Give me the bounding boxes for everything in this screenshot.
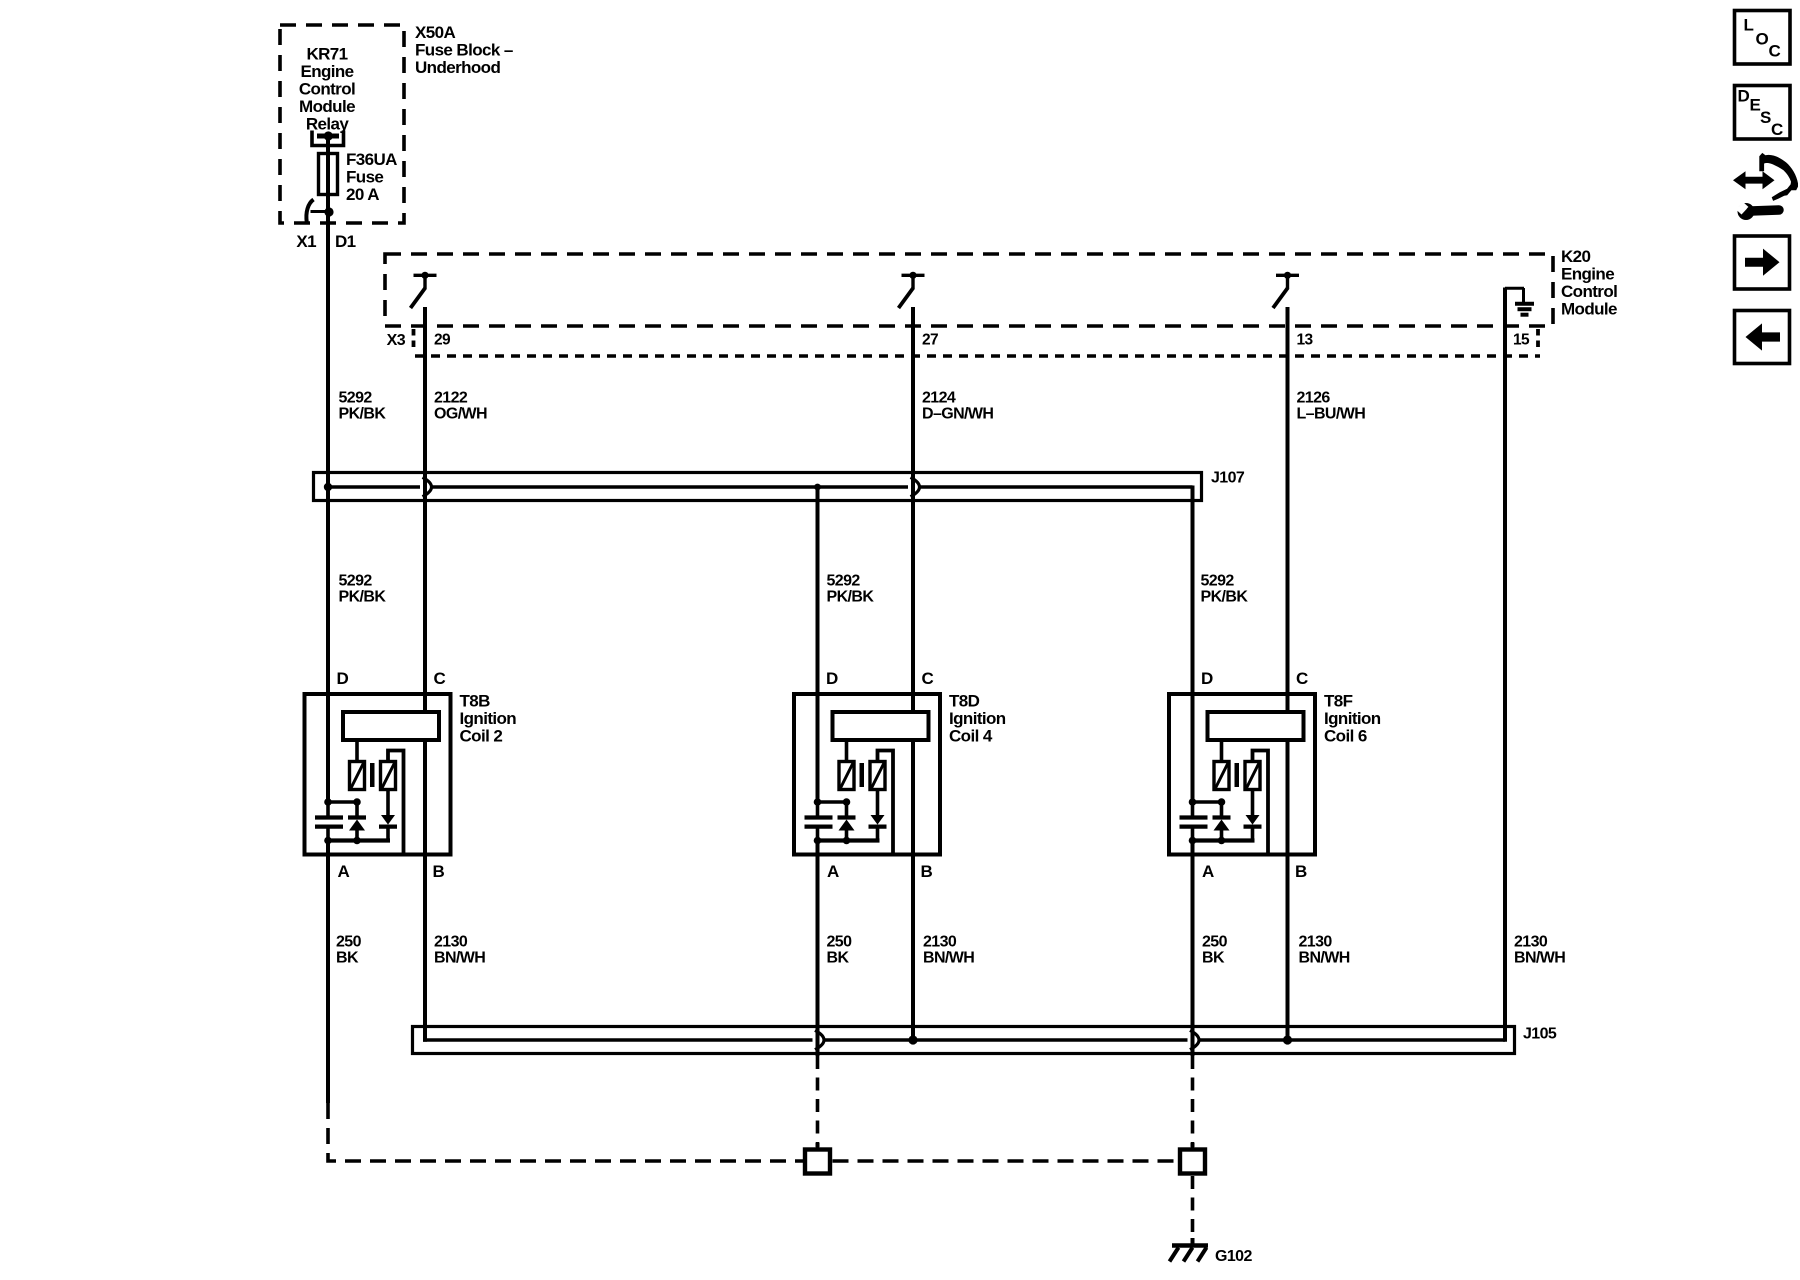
svg-text:PK/BK: PK/BK — [339, 589, 387, 606]
relay switch junction dot — [324, 207, 333, 216]
label T8D Ignition Coil 4 — [949, 692, 1006, 746]
wire 2126 L-BU/WH from ECM pin 13 to coil 6 pin C — [1286, 307, 1290, 712]
svg-text:250: 250 — [336, 934, 362, 951]
svg-text:29: 29 — [434, 332, 451, 349]
J107 branch junction to coil 4 pin D — [814, 484, 821, 491]
T8B primary winding feed wire — [355, 742, 359, 760]
relay switch blade arc — [306, 200, 313, 223]
svg-text:C: C — [1296, 669, 1308, 688]
relay KR71 fixed contact bar — [317, 134, 339, 139]
svg-text:F36UA: F36UA — [346, 150, 397, 169]
svg-text:2126: 2126 — [1297, 390, 1331, 407]
svg-text:BN/WH: BN/WH — [923, 950, 974, 967]
J105 junction dot wire 2130 (coil 4) — [908, 1035, 917, 1044]
svg-text:Engine: Engine — [1561, 265, 1614, 284]
svg-text:D: D — [1738, 87, 1750, 106]
svg-text:2130: 2130 — [1299, 934, 1333, 951]
connector X3 dashed line — [415, 354, 1540, 357]
splice pack J107 bus bar segment 1 — [326, 485, 420, 488]
forward arrow button — [1735, 236, 1790, 289]
engine control module K20 dashed box — [385, 254, 1553, 326]
T8B coil module bar — [343, 712, 439, 740]
J105 hop over wire 250 BK (coil 4) — [815, 1030, 824, 1049]
svg-text:BK: BK — [336, 950, 359, 967]
svg-text:L: L — [1744, 16, 1754, 35]
pin C label T8B — [434, 669, 446, 688]
ECM driver switch output to coil 6 — [1273, 272, 1299, 308]
wire label 250 BK (coil 4) — [827, 934, 853, 967]
wire label 2130 BN/WH (ECM) — [1514, 934, 1565, 967]
T8D diode (down) — [869, 789, 887, 841]
wire label 5292 PK/BK (upper left) — [339, 390, 387, 423]
dashed wire splice square S2 to ground G102 — [1191, 1176, 1195, 1240]
svg-text:BN/WH: BN/WH — [1299, 950, 1350, 967]
wire 2130 BN/WH coil 2 pin B to J105 — [423, 742, 427, 1042]
T8F primary winding feed wire — [1220, 742, 1224, 760]
T8F core bar — [1235, 763, 1240, 787]
T8B core bar — [370, 763, 375, 787]
relay KR71 contact junction dot — [324, 131, 333, 140]
svg-text:B: B — [921, 862, 933, 881]
svg-text:Control: Control — [299, 80, 355, 99]
svg-text:A: A — [338, 862, 350, 881]
pin D label T8F — [1201, 669, 1213, 688]
svg-text:BN/WH: BN/WH — [1514, 950, 1565, 967]
T8D internal ground rail — [815, 838, 880, 842]
svg-text:L–BU/WH: L–BU/WH — [1297, 406, 1366, 423]
wire 250 BK coil 4 dashed to splice square — [816, 1056, 820, 1148]
svg-text:PK/BK: PK/BK — [827, 589, 875, 606]
splice pack J107 bus bar segment 3 — [919, 485, 1193, 488]
wire 2122 OG/WH from ECM pin 29 to coil 2 pin C — [423, 307, 427, 712]
svg-text:2130: 2130 — [923, 934, 957, 951]
relay KR71 contact bracket — [312, 131, 344, 146]
splice pack J107 bus bar segment 2 — [431, 485, 909, 488]
svg-text:2122: 2122 — [434, 390, 468, 407]
ECM driver switch output to coil 4 — [899, 272, 925, 308]
wire 250 BK coil 6 dashed to splice square — [1191, 1056, 1195, 1148]
T8B capacitor — [315, 802, 343, 841]
T8D secondary output wire — [878, 751, 894, 855]
T8F diode (up) — [1213, 802, 1231, 841]
pin label D1 — [335, 232, 356, 251]
T8D primary winding feed wire — [845, 742, 849, 760]
svg-text:J105: J105 — [1523, 1026, 1557, 1043]
svg-text:C: C — [434, 669, 446, 688]
label F36UA Fuse 20 A — [346, 150, 397, 204]
wire 250 BK coil 2 dashed to splice square — [328, 1103, 805, 1161]
svg-text:5292: 5292 — [1201, 573, 1235, 590]
T8F primary winding — [1214, 762, 1229, 790]
wire label 2126 L-BU/WH — [1297, 390, 1366, 423]
svg-text:C: C — [922, 669, 934, 688]
icon curved arrow band — [1759, 153, 1798, 201]
T8B secondary winding — [381, 762, 396, 790]
svg-text:D1: D1 — [335, 232, 356, 251]
relay switch horizontal contact line — [311, 210, 330, 213]
T8D coil module bar — [833, 712, 929, 740]
svg-text:27: 27 — [922, 332, 938, 349]
pin 15 label — [1513, 332, 1530, 349]
svg-text:2130: 2130 — [434, 934, 468, 951]
J107 junction dot wire 5292 — [324, 483, 332, 491]
schematic navigation icon (arrows and wrench) — [1733, 153, 1798, 220]
fuse block X50A dashed box — [280, 25, 404, 223]
icon wrench — [1738, 203, 1755, 220]
connector X3 tick mark — [412, 329, 416, 352]
wire label 250 BK (coil 6) — [1202, 934, 1228, 967]
splice pack J107 outline — [314, 473, 1202, 501]
svg-text:Ignition: Ignition — [949, 709, 1006, 728]
svg-text:Coil 6: Coil 6 — [1324, 727, 1367, 746]
wire 2130 BN/WH coil 6 pin B to J105 — [1286, 742, 1290, 1040]
svg-text:T8D: T8D — [949, 692, 980, 711]
pin B label T8F — [1295, 862, 1307, 881]
pin 13 label — [1297, 332, 1314, 349]
svg-text:J107: J107 — [1211, 470, 1245, 487]
splice pack J105 bus bar segment 1 — [423, 1038, 813, 1041]
label KR71 Engine Control Module Relay — [299, 45, 355, 134]
svg-text:A: A — [827, 862, 839, 881]
T8D internal link primary to D — [818, 800, 847, 804]
pin label X1 — [296, 232, 316, 251]
wire label 2130 BN/WH (coil 4) — [923, 934, 974, 967]
wire 5292 PK/BK from relay to coil 2 pin D (through J107) — [326, 212, 330, 802]
svg-text:Coil 2: Coil 2 — [460, 727, 503, 746]
svg-text:15: 15 — [1513, 332, 1530, 349]
T8D core bar — [860, 763, 865, 787]
svg-text:E: E — [1750, 96, 1761, 115]
pin A label T8D — [827, 862, 839, 881]
pin C label T8D — [922, 669, 934, 688]
wire label 2130 BN/WH (coil 6) — [1299, 934, 1350, 967]
T8B diode (down) — [379, 789, 397, 841]
T8F internal ground rail — [1190, 838, 1255, 842]
svg-text:BK: BK — [827, 950, 850, 967]
T8B internal ground rail — [325, 838, 390, 842]
T8B internal link primary to D — [328, 800, 357, 804]
svg-text:Engine: Engine — [300, 62, 353, 81]
T8B secondary output wire — [388, 751, 404, 855]
label X3 — [387, 332, 406, 349]
svg-text:PK/BK: PK/BK — [339, 406, 387, 423]
label T8B Ignition Coil 2 — [460, 692, 517, 746]
wire label 250 BK (coil 2) — [336, 934, 362, 967]
svg-text:T8F: T8F — [1324, 692, 1353, 711]
wire 250 BK coil 6 pin A down — [1191, 841, 1195, 1057]
splice pack J105 bus bar segment 3 — [1198, 1038, 1505, 1041]
pin 27 label — [922, 332, 938, 349]
ground splice square S2 — [1180, 1150, 1205, 1174]
svg-text:Module: Module — [1561, 300, 1617, 319]
wire label 2130 BN/WH (coil 2) — [434, 934, 485, 967]
T8F secondary winding — [1245, 762, 1260, 790]
ignition coil T8B box — [305, 694, 451, 855]
pin D label T8D — [826, 669, 838, 688]
LOC button box — [1735, 11, 1791, 65]
svg-text:PK/BK: PK/BK — [1201, 589, 1249, 606]
svg-text:Control: Control — [1561, 282, 1617, 301]
wire label 5292 PK/BK (middle) — [827, 573, 875, 606]
J107 hop over wire 2124 — [911, 477, 920, 496]
svg-text:D: D — [826, 669, 838, 688]
svg-text:O: O — [1756, 30, 1769, 49]
wire 250 BK coil 4 pin A down — [816, 841, 820, 1057]
wire label 2122 OG/WH — [434, 390, 487, 423]
label T8F Ignition Coil 6 — [1324, 692, 1381, 746]
svg-text:20 A: 20 A — [346, 185, 379, 204]
wire 5292 PK/BK from J107 to coil 4 pin D — [816, 486, 820, 803]
ECM internal ground symbol — [1505, 288, 1534, 315]
T8F secondary output wire — [1253, 751, 1269, 855]
label J107 — [1211, 470, 1245, 487]
T8D secondary winding — [870, 762, 885, 790]
svg-text:S: S — [1760, 108, 1771, 127]
dashed wire splice square S1 to S2 — [833, 1159, 1178, 1163]
pin D label T8B — [337, 669, 349, 688]
svg-text:13: 13 — [1297, 332, 1314, 349]
splice pack J105 outline — [413, 1027, 1515, 1054]
wire label 5292 PK/BK (left) — [339, 573, 387, 606]
svg-text:250: 250 — [827, 934, 853, 951]
wire 2124 D-GN/WH from ECM pin 27 to coil 4 pin C — [911, 307, 915, 712]
T8F coil module bar — [1208, 712, 1304, 740]
T8F diode (down) — [1244, 789, 1262, 841]
pin C label T8F — [1296, 669, 1308, 688]
J105 hop over wire 250 BK (coil 6) — [1190, 1030, 1199, 1049]
wire 5292 PK/BK from J107 to coil 6 pin D — [1191, 486, 1195, 803]
fuse F36UA body — [319, 154, 338, 195]
label X50A Fuse Block - Underhood — [415, 23, 513, 77]
T8F capacitor — [1180, 802, 1208, 841]
wire 250 BK coil 2 pin A down — [326, 841, 330, 1104]
icon double-headed arrow — [1733, 171, 1775, 189]
svg-text:X1: X1 — [296, 232, 316, 251]
wire label 2124 D-GN/WH — [922, 390, 993, 423]
ignition coil T8D box — [794, 694, 940, 855]
back arrow button — [1735, 311, 1790, 364]
ground G102 symbol — [1170, 1238, 1209, 1262]
T8D primary winding — [839, 762, 854, 790]
svg-text:Ignition: Ignition — [460, 709, 517, 728]
label G102 — [1215, 1248, 1252, 1265]
svg-text:Coil 4: Coil 4 — [949, 727, 993, 746]
T8F internal link primary to D — [1193, 800, 1222, 804]
svg-text:K20: K20 — [1561, 247, 1591, 266]
svg-text:D: D — [337, 669, 349, 688]
svg-text:5292: 5292 — [827, 573, 861, 590]
wire relay contact to fuse to switch — [326, 136, 330, 212]
pin B label T8D — [921, 862, 933, 881]
splice pack J105 bus bar segment 2 — [823, 1038, 1188, 1041]
svg-text:X50A: X50A — [415, 23, 455, 42]
svg-text:BN/WH: BN/WH — [434, 950, 485, 967]
connector tick mark at pin 15 — [1536, 329, 1540, 352]
wire 2130 BN/WH from ECM pin 15 to J105 — [1503, 288, 1507, 1042]
wire 2130 BN/WH coil 4 pin B to J105 — [911, 742, 915, 1040]
svg-text:T8B: T8B — [460, 692, 491, 711]
label J105 — [1523, 1026, 1557, 1043]
svg-text:Module: Module — [299, 97, 355, 116]
pin B label T8B — [433, 862, 445, 881]
svg-text:B: B — [433, 862, 445, 881]
svg-text:Fuse Block –: Fuse Block – — [415, 41, 513, 60]
T8D diode (up) — [838, 802, 856, 841]
svg-text:C: C — [1771, 120, 1783, 139]
svg-text:2130: 2130 — [1514, 934, 1548, 951]
svg-text:C: C — [1769, 42, 1781, 61]
svg-text:Fuse: Fuse — [346, 168, 383, 187]
pin A label T8F — [1202, 862, 1214, 881]
label K20 Engine Control Module — [1561, 247, 1617, 319]
J107 hop over wire 2122 — [423, 477, 432, 496]
svg-text:Underhood: Underhood — [415, 58, 500, 77]
svg-text:OG/WH: OG/WH — [434, 406, 487, 423]
svg-text:Ignition: Ignition — [1324, 709, 1381, 728]
pin A label T8B — [338, 862, 350, 881]
T8B diode (up) — [348, 802, 366, 841]
svg-text:D: D — [1201, 669, 1213, 688]
wire label 5292 PK/BK (right) — [1201, 573, 1249, 606]
ECM driver switch output to coil 2 — [411, 272, 437, 308]
svg-text:D–GN/WH: D–GN/WH — [922, 406, 993, 423]
svg-text:A: A — [1202, 862, 1214, 881]
svg-text:X3: X3 — [387, 332, 406, 349]
T8B primary winding — [350, 762, 365, 790]
J105 junction dot wire 2130 (coil 6) — [1283, 1035, 1292, 1044]
svg-text:2124: 2124 — [922, 390, 956, 407]
DESC button box — [1735, 86, 1791, 140]
pin 29 label — [434, 332, 451, 349]
ground splice square S1 — [805, 1150, 830, 1174]
svg-text:B: B — [1295, 862, 1307, 881]
svg-text:KR71: KR71 — [306, 45, 347, 64]
svg-text:250: 250 — [1202, 934, 1228, 951]
T8D capacitor — [805, 802, 833, 841]
ignition coil T8F box — [1169, 694, 1315, 855]
svg-text:5292: 5292 — [339, 390, 373, 407]
svg-text:G102: G102 — [1215, 1248, 1252, 1265]
svg-text:BK: BK — [1202, 950, 1225, 967]
svg-text:5292: 5292 — [339, 573, 373, 590]
